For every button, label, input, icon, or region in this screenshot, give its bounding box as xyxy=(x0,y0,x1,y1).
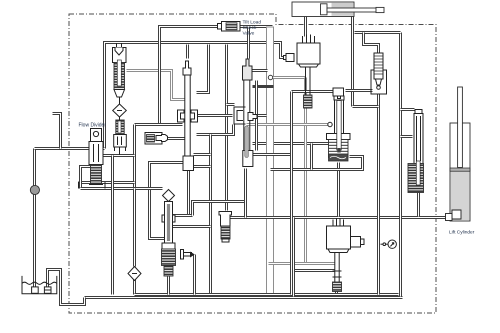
lift cylinder xyxy=(446,87,471,221)
wire right drop x379 xyxy=(377,95,380,295)
wire gray pilot to solenoid rod xyxy=(272,76,306,79)
wire cup drain x168 xyxy=(167,277,170,295)
wire tilt cylinder left port xyxy=(304,17,307,37)
wire check tap upper xyxy=(353,105,379,108)
wire steering port line xyxy=(53,114,61,149)
wire metered flow line xyxy=(81,187,163,190)
wire gray drop to lower solenoid xyxy=(304,78,307,264)
check ball on suction line xyxy=(30,185,39,194)
wire tilt-load-check line right xyxy=(241,25,273,28)
wire bracket feed xyxy=(227,103,235,106)
spool 1 (tilt spool) xyxy=(178,61,198,171)
wire rail drop to spool1 right xyxy=(197,45,209,93)
spring check cartridge mid-bottom xyxy=(219,212,232,243)
wire lower solenoid feed 2 xyxy=(292,269,335,272)
lowering control cartridge xyxy=(162,190,176,277)
wire gray pilot to spool3 tab xyxy=(247,123,329,126)
orifice diamond 2 xyxy=(128,267,141,281)
wire relief2 feed xyxy=(364,33,379,53)
wire main cylinder line xyxy=(231,216,451,219)
wire spool2 pilot stem xyxy=(247,27,250,59)
wire drain x194 xyxy=(193,255,196,295)
wire lower solenoid rod tail xyxy=(335,291,338,298)
wire tank return loop xyxy=(48,270,85,305)
wire tilt-load-check line left xyxy=(160,27,219,125)
wire lower Z link xyxy=(193,202,246,216)
wire spool2 box drain stub xyxy=(253,153,292,156)
dashed enclosure border (valve block) xyxy=(69,14,436,313)
wire suction line xyxy=(33,149,36,287)
wire dark bar junction xyxy=(253,85,274,88)
solenoid valve 1 (tilt) xyxy=(284,35,321,109)
wire check poppet feed xyxy=(401,108,415,111)
wire flow divider outlet to rail xyxy=(101,147,105,150)
suction strainer 1 xyxy=(32,287,39,293)
right check valve cartridge xyxy=(408,110,424,193)
svg-text:Flow Divider: Flow Divider xyxy=(79,123,107,129)
wire spool1 drain xyxy=(187,171,190,216)
wire rail drop to check cartridge xyxy=(225,45,228,211)
wire poppet stub to drop A xyxy=(253,69,268,72)
wire solenoid1 link right xyxy=(292,90,334,93)
wire flow divider port line xyxy=(79,181,135,184)
node relief TL stem xyxy=(116,43,118,48)
tank xyxy=(22,276,57,294)
wire spool3 chamber drain xyxy=(271,157,363,170)
small pilot check valve xyxy=(145,133,168,145)
wire spool port link y115 xyxy=(197,114,233,117)
relief valve 2 (right) xyxy=(371,53,387,94)
wire flow divider drain xyxy=(111,156,114,295)
wire lower link A xyxy=(171,214,193,217)
node junction ring on drop A xyxy=(268,75,272,79)
wire tilt cylinder right port xyxy=(351,15,354,107)
wire wide gray drop A xyxy=(266,27,274,295)
return strainer 2 xyxy=(44,287,51,293)
wire tank column x136 xyxy=(133,189,136,267)
svg-text:Lift Cylinder: Lift Cylinder xyxy=(449,230,475,236)
tilt load check valve xyxy=(218,22,241,32)
main relief valve top-left xyxy=(113,48,127,98)
wire spool1 pilot stem xyxy=(186,45,189,59)
wire chamber drain riser xyxy=(310,144,313,170)
wire suction horizontal xyxy=(35,147,91,150)
orifice diamond 1 xyxy=(113,97,127,117)
wire check stem xyxy=(167,137,185,140)
wire gray riser to spool1 xyxy=(150,163,183,239)
wire check tap lower xyxy=(401,135,413,138)
wire bottom rail inner xyxy=(135,293,399,296)
wire port line y115 right xyxy=(258,114,267,117)
spool 3 (main/tilt section body) xyxy=(327,88,351,161)
wire right riser x400 xyxy=(399,33,402,297)
label tilt load check valve xyxy=(243,20,262,37)
wire flow divider left port xyxy=(81,167,91,189)
wire supply rail from pump xyxy=(105,43,286,149)
wire top right header xyxy=(355,31,401,34)
svg-text:Check: Check xyxy=(243,25,257,31)
wire pilot drop x291 xyxy=(290,92,293,295)
wire spool1 lower port lines xyxy=(197,125,234,135)
wire gray pilot from relief xyxy=(127,71,185,100)
wire spool2 to spool3 body line xyxy=(253,142,329,145)
solenoid valve 2 (lowering) xyxy=(327,218,365,292)
wire lower solenoid feed 1 xyxy=(269,262,335,265)
flow divider xyxy=(79,129,106,189)
wire spool3 top right arm xyxy=(346,89,373,92)
spool 2 (lift spool) xyxy=(234,59,257,167)
tilt cylinder xyxy=(292,2,384,17)
pressure gauge xyxy=(381,240,397,248)
wire port line y124 xyxy=(135,123,183,126)
wire column x136 upper xyxy=(133,125,136,189)
check cartridge below diamond 1 xyxy=(114,117,127,155)
wire bottom rail outer xyxy=(85,296,403,299)
wire spool2 side drain xyxy=(255,81,258,151)
wire lower link B xyxy=(171,225,211,228)
wire spool3 column down xyxy=(337,163,340,217)
svg-text:Tilt Load: Tilt Load xyxy=(243,20,262,26)
wire check valve drain xyxy=(417,193,420,217)
wire enclosure left x293 xyxy=(292,218,295,297)
svg-text:Valve: Valve xyxy=(243,31,255,37)
wire spool2 drain riser xyxy=(244,169,247,218)
wire fd manifold line y155 xyxy=(103,154,135,157)
bleed screw valve xyxy=(181,250,195,260)
